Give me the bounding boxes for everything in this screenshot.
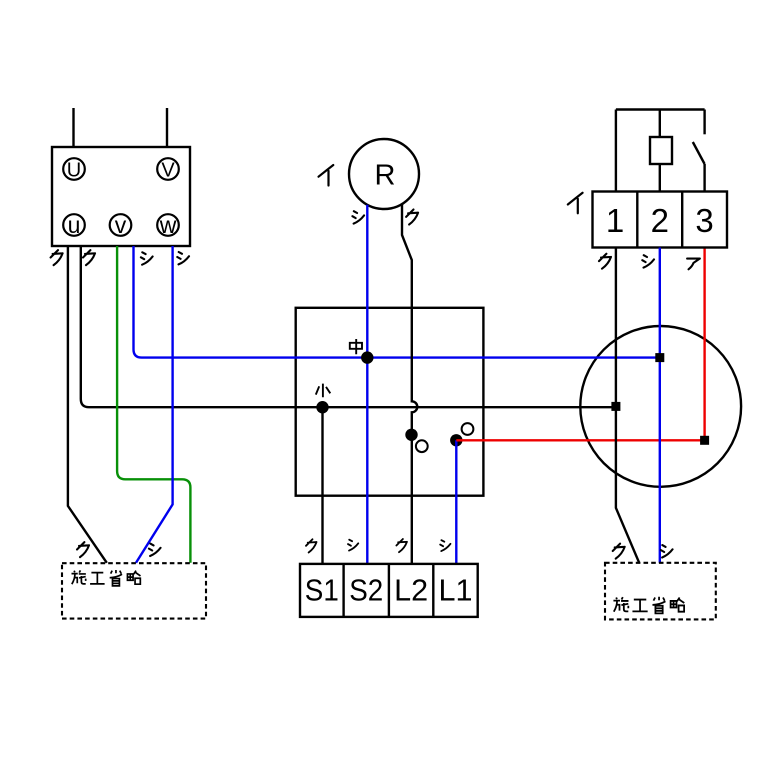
- node square joint red: [700, 436, 709, 445]
- node naka junction dot: [361, 351, 373, 363]
- label shi above S2: [348, 540, 358, 551]
- svg-text:R: R: [375, 160, 396, 192]
- wire stub to V: [166, 108, 168, 147]
- wire stub to U: [72, 108, 74, 147]
- wire black terminal1 riser: [615, 110, 617, 192]
- wire black u to ko terminal (horizontal run): [81, 246, 616, 407]
- node splice dot black (R-L2): [405, 429, 417, 441]
- svg-text:L2: L2: [394, 573, 428, 608]
- wire blue lamp R to S2: [366, 205, 368, 564]
- terminal divider S2/L2: [388, 564, 390, 617]
- lamp receptacle R: [349, 139, 419, 209]
- wire blue terminal2 to lower-right box: [659, 248, 661, 563]
- label ku above right box: [613, 544, 625, 559]
- terminal divider 1/2: [636, 192, 638, 248]
- terminal U: [63, 158, 85, 181]
- svg-text:V: V: [161, 160, 175, 182]
- text sekou shouryaku (right): [613, 597, 684, 614]
- label ku above L2: [396, 539, 407, 552]
- switch SW terminal strip outline: [593, 192, 728, 248]
- label ku (black) wire1: [51, 250, 63, 265]
- label i for lamp R: [319, 165, 334, 186]
- wire black sho dot to S1: [321, 407, 323, 564]
- label ku above S1: [306, 539, 317, 552]
- lower-right omitted-work box: [605, 563, 716, 620]
- svg-text:u: u: [68, 212, 81, 238]
- pilot lamp rectangle: [650, 137, 672, 164]
- terminal divider 2/3: [681, 192, 683, 248]
- node square joint black: [611, 402, 620, 411]
- svg-text:v: v: [115, 212, 127, 238]
- wire blue v to naka terminal (horizontal run): [134, 246, 660, 358]
- connector mark circle 2: [462, 423, 474, 435]
- wire black lamp R to L2 (with hop over horizontal): [402, 204, 417, 564]
- wire black u to lower-left box: [68, 246, 107, 563]
- wire switch to terminal 3: [703, 164, 705, 192]
- wire blue w to lower-left box: [136, 246, 173, 563]
- outlet box (right circle): [580, 326, 741, 487]
- svg-text:1: 1: [606, 202, 624, 239]
- wire green ground to lower-left box: [117, 246, 190, 563]
- wire red splice to terminal 3: [456, 248, 704, 441]
- terminal u: [63, 212, 85, 238]
- lower-left omitted-work box: [62, 563, 206, 618]
- label ku (black) wire2: [83, 250, 95, 265]
- switch blade: [693, 142, 705, 164]
- label shi (white) under v: [141, 252, 153, 264]
- label ku under lamp R: [406, 210, 418, 225]
- svg-text:S1: S1: [305, 573, 339, 608]
- wire top horizontal: [616, 108, 705, 110]
- wire blue splice to L1: [455, 440, 457, 564]
- label shi above left box: [149, 544, 161, 556]
- label sho (small slot): [316, 384, 331, 398]
- label shi above right box: [661, 545, 673, 557]
- svg-text:w: w: [159, 212, 177, 238]
- svg-text:S2: S2: [349, 573, 383, 608]
- label shi above L1: [440, 540, 450, 551]
- label shi under lamp R: [352, 211, 364, 223]
- label naka (middle slot): [350, 339, 362, 354]
- wire pilot lamp to terminal 2: [659, 164, 661, 192]
- svg-text:L1: L1: [439, 573, 473, 608]
- terminal V: [157, 158, 179, 181]
- label shi (white) under w: [177, 252, 189, 264]
- label a under terminal 3: [687, 259, 700, 270]
- svg-text:3: 3: [695, 202, 713, 239]
- terminal divider L2/L1: [432, 564, 434, 617]
- label shi under terminal 2: [642, 255, 654, 267]
- svg-text:2: 2: [651, 202, 669, 239]
- terminal divider S1/S2: [342, 564, 344, 617]
- node splice dot red-blue: [450, 434, 462, 446]
- node square joint blue: [655, 353, 664, 362]
- timer TB terminal strip outline: [300, 564, 478, 617]
- wire black terminal1 to lower-right box: [616, 248, 639, 563]
- node sho junction dot: [316, 401, 328, 413]
- wire to pilot lamp: [659, 110, 661, 138]
- connector mark circle 1: [416, 440, 428, 452]
- motor terminal block: [52, 147, 190, 246]
- svg-text:U: U: [67, 160, 81, 182]
- label ku under terminal 1: [599, 254, 611, 269]
- label ku above left box: [77, 542, 89, 557]
- terminal v: [110, 212, 132, 238]
- wire switch upper lead: [703, 110, 705, 135]
- label i for switch: [568, 193, 583, 214]
- text sekou shouryaku (left): [71, 570, 140, 586]
- junction box (middle): [296, 308, 484, 496]
- terminal w: [157, 212, 179, 238]
